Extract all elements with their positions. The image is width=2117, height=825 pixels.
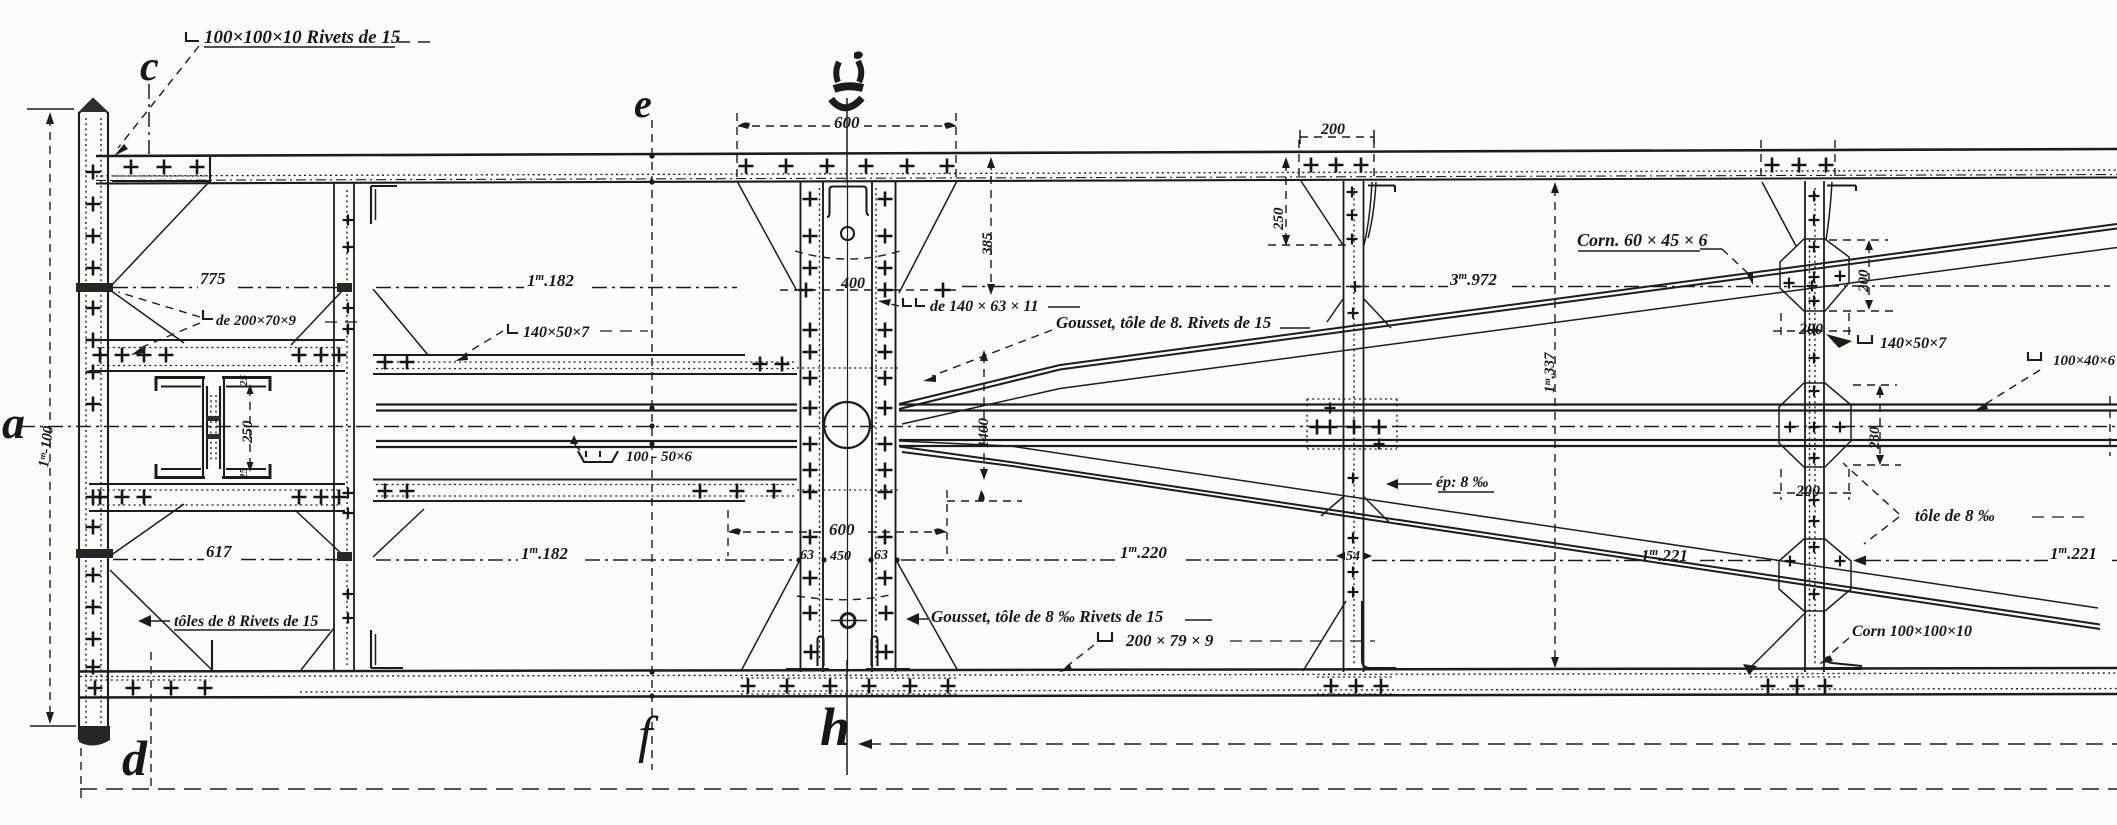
left vertical member (end post): [76, 99, 113, 746]
lower diagonal member: [899, 441, 2100, 629]
svg-text:140×50×7: 140×50×7: [523, 324, 590, 341]
center dash-dot axis line (y=426): [20, 426, 2117, 428]
svg-text:600: 600: [834, 113, 860, 132]
svg-text:de 200×70×9: de 200×70×9: [216, 313, 297, 329]
svg-text:1m.220: 1m.220: [1120, 543, 1167, 562]
svg-text:54: 54: [1346, 549, 1360, 564]
P3 top gusset: [1301, 181, 1343, 245]
dimension 200 below O2: [1773, 469, 1853, 500]
label E 140x50x7 with leader: [455, 324, 648, 361]
svg-text:1m.221: 1m.221: [1641, 546, 1688, 565]
left member foot: [79, 726, 110, 746]
dimension 600 top at center post: [738, 113, 956, 132]
P2 gussets at flange strips: [291, 289, 344, 345]
svg-text:200: 200: [1320, 121, 1345, 138]
left member splice at 617 line: [76, 549, 113, 558]
dimension 250 at P3: [1271, 157, 1290, 246]
svg-text:1ᵐ.337: 1ᵐ.337: [1542, 352, 1558, 393]
center post top flange hook: [830, 187, 867, 200]
octagon gusset O3 at lower diagonal: [1779, 539, 1851, 611]
section line c-d: [122, 44, 159, 788]
svg-text:c: c: [140, 44, 159, 90]
svg-text:1400: 1400: [976, 418, 992, 449]
svg-text:250: 250: [1271, 207, 1287, 231]
svg-text:tôle de 8 ‰: tôle de 8 ‰: [1915, 506, 1995, 525]
octagon gusset O2 at band crossing: [1779, 383, 1851, 467]
label 54 with arrows: [1336, 552, 1345, 560]
rivet column on left member: [86, 165, 101, 675]
center bay upper flange strip: [373, 355, 797, 375]
dimension 1400 rotated: [976, 350, 992, 480]
svg-text:d: d: [122, 730, 148, 786]
dimension 250 for channels: [249, 388, 251, 468]
svg-text:25: 25: [238, 468, 250, 481]
P4 top gusset: [1762, 182, 1796, 246]
svg-text:450: 450: [829, 549, 851, 564]
bottom gusset of center post: [741, 560, 800, 671]
ornate g label at top center: [831, 51, 863, 107]
label Corn 60x45x6: [1577, 230, 1753, 285]
label Gousset tole de 8 pm rivets de 15 (lower): [906, 607, 1212, 626]
center post (double channel): [737, 113, 958, 694]
rivets on bottom chord at center gusset: [741, 678, 958, 694]
bottom-left gusset at end post: [88, 570, 214, 696]
left bay gusset diagonal above 617 splice: [110, 504, 184, 556]
label tole de 8 rivets de 15 (lower left): [138, 613, 330, 630]
middle band upper angle pair: [376, 405, 2117, 411]
svg-text:200 × 79 × 9: 200 × 79 × 9: [1125, 631, 1214, 650]
svg-text:1m.221: 1m.221: [2050, 544, 2097, 563]
svg-text:a: a: [2, 397, 25, 448]
label Corn 100x100x10: [1819, 623, 1972, 664]
big circle at band crossing: [824, 402, 870, 448]
svg-text:100×100×10 Rivets de 15: 100×100×10 Rivets de 15: [204, 27, 401, 48]
svg-text:250: 250: [240, 420, 256, 444]
dimension 200 rotated right of O1: [1829, 240, 1895, 311]
svg-text:140×50×7: 140×50×7: [1880, 335, 1947, 352]
top gusset of center post: [737, 181, 797, 291]
small terminal dash right of band: [2109, 396, 2111, 456]
label tole de 8 pm right: [1843, 463, 2092, 544]
svg-text:200: 200: [1795, 483, 1820, 500]
svg-text:775: 775: [200, 269, 226, 288]
center post rivets: [803, 192, 818, 207]
section line e-f: [634, 81, 659, 770]
dimension 385: [980, 157, 996, 295]
bottom border dash line: [80, 788, 2117, 790]
post P2: [291, 183, 428, 672]
rivets on top chord at center gusset: [739, 159, 754, 174]
svg-text:e: e: [634, 81, 652, 126]
svg-text:ép: 8 ‰: ép: 8 ‰: [1436, 474, 1488, 491]
center post circle with cross at bottom: [841, 614, 855, 628]
svg-text:230: 230: [1867, 426, 1883, 450]
svg-text:3m.972: 3m.972: [1449, 270, 1497, 289]
P4 feet: [1748, 612, 1806, 670]
label ep 8 pm: [1386, 474, 1494, 492]
svg-text:25: 25: [238, 375, 250, 388]
post P4: [1743, 140, 1862, 694]
P3 gusset at lower diagonal: [1321, 497, 1343, 516]
reference dash-dot line A (y=287): [113, 281, 2110, 293]
upper diagonal member (Corn. 60x45x6): [899, 224, 2117, 424]
reference dash-dot line B (y=560): [113, 556, 2117, 566]
svg-text:Corn. 60 × 45 × 6: Corn. 60 × 45 × 6: [1577, 230, 1708, 250]
left bay gusset diagonal below 775 splice: [110, 290, 184, 343]
left member splice at 775 line: [76, 283, 113, 292]
svg-text:Gousset, tôle de 8 ‰ Rivets de: Gousset, tôle de 8 ‰ Rivets de 15: [931, 607, 1164, 626]
svg-text:400: 400: [840, 275, 865, 292]
label angle 100x40x6 far right: [1974, 352, 2116, 411]
svg-text:600: 600: [829, 520, 855, 539]
svg-text:Gousset, tôle de 8. Rivets de: Gousset, tôle de 8. Rivets de 15: [1056, 313, 1272, 332]
svg-text:de 140 × 63 × 11: de 140 × 63 × 11: [930, 298, 1038, 315]
P3 gusset at upper diagonal: [1327, 299, 1343, 322]
svg-text:h: h: [820, 697, 850, 757]
dimension 63 450 63 under center post: [741, 548, 958, 564]
svg-text:200: 200: [1798, 321, 1823, 338]
svg-text:tôles de 8 Rivets de 15: tôles de 8 Rivets de 15: [174, 613, 318, 630]
center post small circle at top: [841, 227, 854, 240]
400 dashed line: [780, 289, 957, 291]
svg-text:1m.182: 1m.182: [521, 544, 568, 563]
P3 plate at band crossing: [1307, 399, 1397, 449]
label angle 100x100x10 rivets de 15: [114, 27, 437, 156]
bottom chord: [80, 668, 2117, 698]
dimension 1m100 at far left: [2, 109, 76, 726]
svg-text:f: f: [638, 707, 659, 764]
P3 feet: [1303, 601, 1346, 671]
dimension 1m337 vertical: [1542, 182, 1559, 668]
label channel 100-50x6: [570, 435, 693, 465]
center post bottom feet: [818, 637, 824, 667]
post P3: [1268, 140, 1397, 694]
svg-text:63: 63: [874, 548, 888, 563]
dashed arc on center post top: [795, 251, 900, 259]
bottom dashed line from h: [858, 739, 2117, 749]
svg-text:1ᵐ-100: 1ᵐ-100: [36, 425, 57, 469]
top chord: [96, 149, 2117, 184]
back-to-back channels (I-section) in left bay: [156, 375, 270, 481]
label angle 140x50x7 at O1: [1826, 334, 1947, 352]
label Gousset tole de 8 Rivets de 15 (upper): [923, 313, 1310, 382]
center bay lower flange strip: [373, 480, 797, 502]
octagon gusset O1 at upper diagonal: [1780, 239, 1849, 311]
label angle 200x79x9: [1059, 631, 1375, 672]
label E de 200x70x9 with leaders: [118, 292, 360, 355]
dotted plate outline at band crossing: [797, 368, 899, 490]
section line g-h center: [820, 98, 850, 775]
svg-text:63: 63: [800, 548, 814, 563]
left bay lower flange strip: [89, 484, 347, 511]
svg-text:Corn 100×100×10: Corn 100×100×10: [1852, 623, 1972, 640]
label angle de 140x63x11: [878, 298, 1080, 315]
dimension 600 bottom at center post: [728, 490, 1022, 556]
svg-text:617: 617: [206, 542, 233, 561]
left bay upper flange strip: [89, 340, 347, 371]
dimension 200 below O1: [1773, 313, 1857, 338]
dimension 230 rotated right of O2: [1853, 385, 1901, 465]
svg-text:385: 385: [980, 232, 996, 256]
svg-text:100 - 50×6: 100 - 50×6: [626, 449, 693, 465]
dimension 200 above P3: [1300, 121, 1374, 144]
top-left gusset at end post: [110, 156, 210, 287]
middle band lower angle pair: [376, 440, 2117, 447]
svg-text:200: 200: [1856, 269, 1872, 293]
svg-text:100×40×6: 100×40×6: [2053, 353, 2116, 369]
svg-text:1m.182: 1m.182: [527, 271, 574, 290]
